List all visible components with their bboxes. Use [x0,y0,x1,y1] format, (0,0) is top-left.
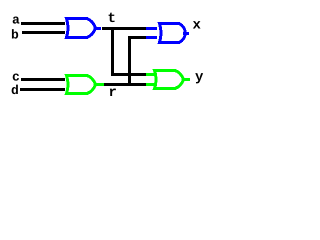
wire: t branch to gate 4 top input [111,73,146,76]
svg-text:y: y [195,70,204,86]
svg-text:d: d [11,83,19,98]
svg-text:r: r [109,85,117,101]
wire: vertical rise of r (node r up) [128,36,131,86]
input pin stubs U2 [146,27,157,30]
output stub U1 [94,27,101,30]
wire a [21,22,65,25]
gate U3 (green, inputs c d, output r) [67,76,96,94]
logic circuit schematic 222x119 [0,0,222,119]
output stub U4 [182,78,190,81]
output stub U2 [183,32,189,35]
gate U1 (blue, inputs a b, output t) [67,19,96,38]
gate U2 (blue, inputs t r, output x) [160,24,186,43]
wire b [22,31,65,34]
wire: r branch to gate 2 bottom input [128,36,146,39]
wire c [21,78,65,81]
svg-text:a: a [12,13,20,28]
input pin stubs U4 [146,73,157,76]
svg-text:t: t [108,11,116,27]
gate U4 (green, inputs t r, output y) [155,71,184,89]
svg-text:x: x [193,18,202,34]
output stub U3 [94,83,104,86]
svg-text:b: b [11,28,19,43]
wire d [20,88,65,91]
wire: vertical drop of t (node t down) [111,27,114,75]
wire r (gate 3 output to gate 4) [103,83,146,86]
wire t (AND output to OR gate 2) [102,27,146,30]
